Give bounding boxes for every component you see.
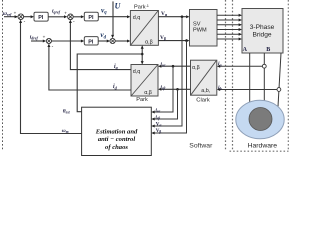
wire V_alpha to estimation [155,17,183,126]
block 3-Phase Bridge [242,9,283,54]
wire i_d feedback [49,45,131,90]
block Park-1 inverse transform [130,11,158,46]
current tap circle phase C [277,88,281,92]
svg-text:PI: PI [88,39,94,45]
svg-text:d,q: d,q [133,15,141,21]
wire U vertical [112,1,114,35]
block Clark transform [191,60,217,95]
block SV PWM [190,10,218,47]
motor inner [249,108,272,131]
wire i_salpha to estimation [155,66,174,112]
wire Clark alpha out to Park [161,65,190,67]
tap V_beta dot [185,39,188,42]
svg-text:α,β: α,β [192,65,200,71]
svg-text:isβ: isβ [156,116,161,121]
svg-text:Clark: Clark [196,97,210,103]
summing junction 2 [68,14,74,20]
svg-text:PI: PI [88,15,94,21]
svg-text:Vα: Vα [156,123,162,128]
six PWM gate wires [217,15,239,39]
wire phase B [263,53,265,101]
tap i_sbeta dot [176,88,179,91]
svg-text:B: B [266,47,270,53]
hardware dashed border left [232,0,234,151]
theta junction dot [141,53,144,56]
svg-text:PI: PI [38,15,44,21]
svg-text:ib: ib [218,85,222,91]
svg-text:Hardware: Hardware [248,142,278,149]
wire PI3 to junction4 (vd) [98,40,107,42]
svg-text:Estimation and: Estimation and [95,129,138,136]
wire junction3 to PI3 [52,40,82,42]
PI controller 3 (id) [84,37,98,45]
PI controller 1 (speed) [34,12,48,21]
wire V_beta to SVPWM [158,40,186,42]
software dashed border right [225,0,227,150]
svg-text:a,b,: a,b, [201,88,210,94]
svg-text:Park: Park [136,97,148,103]
software dashed border left [2,0,4,151]
svg-text:α,β: α,β [144,90,152,96]
wire phase C [278,53,281,107]
PI controller 2 (iq) [84,12,98,21]
svg-text:anti − control: anti − control [98,136,136,143]
wire Clark beta out to Park [161,88,190,90]
theta wire horizontal [77,54,142,112]
tap i_salpha dot [172,65,175,68]
motor outer [236,100,284,139]
summing junction 3 [46,38,51,43]
hardware dashed border right [287,0,289,151]
block Park transform [131,65,158,97]
svg-text:+: + [64,11,67,16]
svg-text:Bridge: Bridge [252,31,271,38]
wire V_beta to estimation [155,41,187,133]
wire i_q feedback [70,21,131,70]
svg-text:d,q: d,q [133,69,141,75]
svg-text:+: + [43,35,46,40]
svg-text:PWM: PWM [193,28,207,34]
svg-text:A: A [243,47,248,53]
svg-text:SV: SV [193,22,201,28]
summing junction 1 [18,14,24,20]
wire i_dref input [31,40,43,42]
current tap circle phase B [262,64,266,68]
wire junction2 to PI2 [73,16,81,18]
block Estimation [82,107,152,155]
wire omega feedback [21,21,82,134]
svg-text:α,β: α,β [145,39,153,45]
wire junction1 to PI1 [24,16,31,18]
svg-text:Softwar: Softwar [189,143,213,150]
svg-text:ia: ia [218,61,222,67]
svg-text:of chaos: of chaos [105,144,128,151]
wire omega_ref input [4,16,17,18]
hardware dashed border bottom [230,150,289,152]
wire i_a tap to Clark [220,65,262,67]
wire i_b tap to Clark [220,89,277,91]
wire PI1 to junction2 [48,16,64,18]
svg-text:Vβ: Vβ [156,129,162,134]
svg-text:3-Phase: 3-Phase [250,24,275,31]
svg-text:iq: iq [114,64,118,70]
wire phase A [249,53,251,102]
summing junction 4 (vd + U) [110,38,115,43]
wire PI2 to Park-1 (vq) [98,16,127,18]
tap V_alpha dot [181,15,184,18]
wire junction4 to Park-1 [115,40,127,42]
wire V_alpha to SVPWM [158,16,186,18]
theta wire between Park blocks [141,47,143,64]
svg-text:+: + [14,11,17,16]
wire i_sbeta to estimation [155,89,178,119]
